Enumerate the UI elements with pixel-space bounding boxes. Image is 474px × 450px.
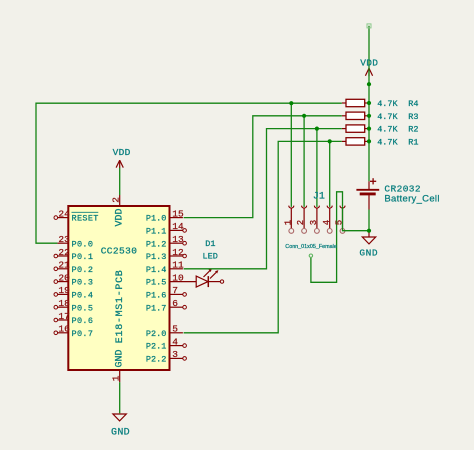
svg-text:5: 5 <box>335 220 345 225</box>
svg-text:CC2530: CC2530 <box>101 245 138 256</box>
svg-text:5: 5 <box>172 324 178 335</box>
svg-text:P0.7: P0.7 <box>72 329 94 339</box>
svg-text:P1.5: P1.5 <box>146 278 166 288</box>
svg-text:4: 4 <box>322 220 332 225</box>
svg-text:VDD: VDD <box>115 208 126 226</box>
svg-text:VDD: VDD <box>113 147 131 158</box>
svg-text:P0.3: P0.3 <box>72 278 94 288</box>
svg-text:P0.5: P0.5 <box>72 303 94 313</box>
svg-text:VDD: VDD <box>360 58 378 69</box>
svg-text:R2: R2 <box>408 125 418 135</box>
svg-text:P0.2: P0.2 <box>72 265 94 275</box>
svg-text:GND: GND <box>111 428 130 439</box>
svg-text:2: 2 <box>111 197 122 203</box>
svg-text:24: 24 <box>58 208 70 219</box>
svg-text:21: 21 <box>58 260 70 271</box>
svg-text:10: 10 <box>172 272 184 283</box>
svg-text:4.7K: 4.7K <box>377 112 398 122</box>
svg-text:3: 3 <box>172 349 178 360</box>
svg-text:R1: R1 <box>408 138 418 148</box>
svg-text:6: 6 <box>172 298 178 309</box>
svg-text:P2.2: P2.2 <box>146 355 166 365</box>
svg-text:P1.3: P1.3 <box>146 252 166 262</box>
svg-text:4.7K: 4.7K <box>377 125 398 135</box>
svg-text:P1.6: P1.6 <box>146 291 166 301</box>
svg-text:GND: GND <box>115 349 126 367</box>
svg-text:E18-MS1-PCB: E18-MS1-PCB <box>115 269 126 343</box>
svg-text:P0.0: P0.0 <box>72 239 94 249</box>
svg-text:Battery_Cell: Battery_Cell <box>384 194 439 205</box>
svg-text:P2.0: P2.0 <box>146 329 166 339</box>
svg-text:Conn_01x05_Female: Conn_01x05_Female <box>285 244 337 250</box>
svg-text:1: 1 <box>111 375 122 381</box>
svg-text:18: 18 <box>58 298 70 309</box>
svg-text:19: 19 <box>58 285 70 296</box>
svg-text:P2.1: P2.1 <box>146 342 166 352</box>
svg-text:P0.1: P0.1 <box>72 252 94 262</box>
svg-text:P1.1: P1.1 <box>146 227 166 237</box>
svg-text:3: 3 <box>309 220 319 225</box>
svg-text:D1: D1 <box>205 239 215 249</box>
svg-text:20: 20 <box>58 272 70 283</box>
svg-text:P1.7: P1.7 <box>146 303 166 313</box>
svg-text:GND: GND <box>359 248 378 259</box>
svg-text:1: 1 <box>283 220 293 225</box>
svg-text:P1.0: P1.0 <box>146 214 166 224</box>
svg-text:4.7K: 4.7K <box>377 138 398 148</box>
svg-text:11: 11 <box>172 260 184 271</box>
svg-text:4: 4 <box>172 336 178 347</box>
svg-text:P1.4: P1.4 <box>146 265 166 275</box>
svg-text:13: 13 <box>172 234 184 245</box>
svg-text:14: 14 <box>172 221 184 232</box>
svg-text:2: 2 <box>296 220 306 225</box>
svg-text:22: 22 <box>58 247 70 258</box>
svg-text:R3: R3 <box>408 112 418 122</box>
svg-text:R4: R4 <box>408 99 418 109</box>
svg-text:12: 12 <box>172 247 184 258</box>
svg-text:7: 7 <box>172 285 178 296</box>
svg-text:LED: LED <box>203 252 218 262</box>
svg-text:4.7K: 4.7K <box>377 99 398 109</box>
svg-text:P1.2: P1.2 <box>146 239 166 249</box>
svg-text:17: 17 <box>58 311 69 322</box>
svg-text:15: 15 <box>172 208 184 219</box>
svg-text:23: 23 <box>58 234 70 245</box>
svg-text:P0.4: P0.4 <box>72 291 94 301</box>
svg-text:P0.6: P0.6 <box>72 316 94 326</box>
svg-text:RESET: RESET <box>72 214 99 224</box>
svg-text:J1: J1 <box>313 192 325 203</box>
svg-text:16: 16 <box>58 324 70 335</box>
